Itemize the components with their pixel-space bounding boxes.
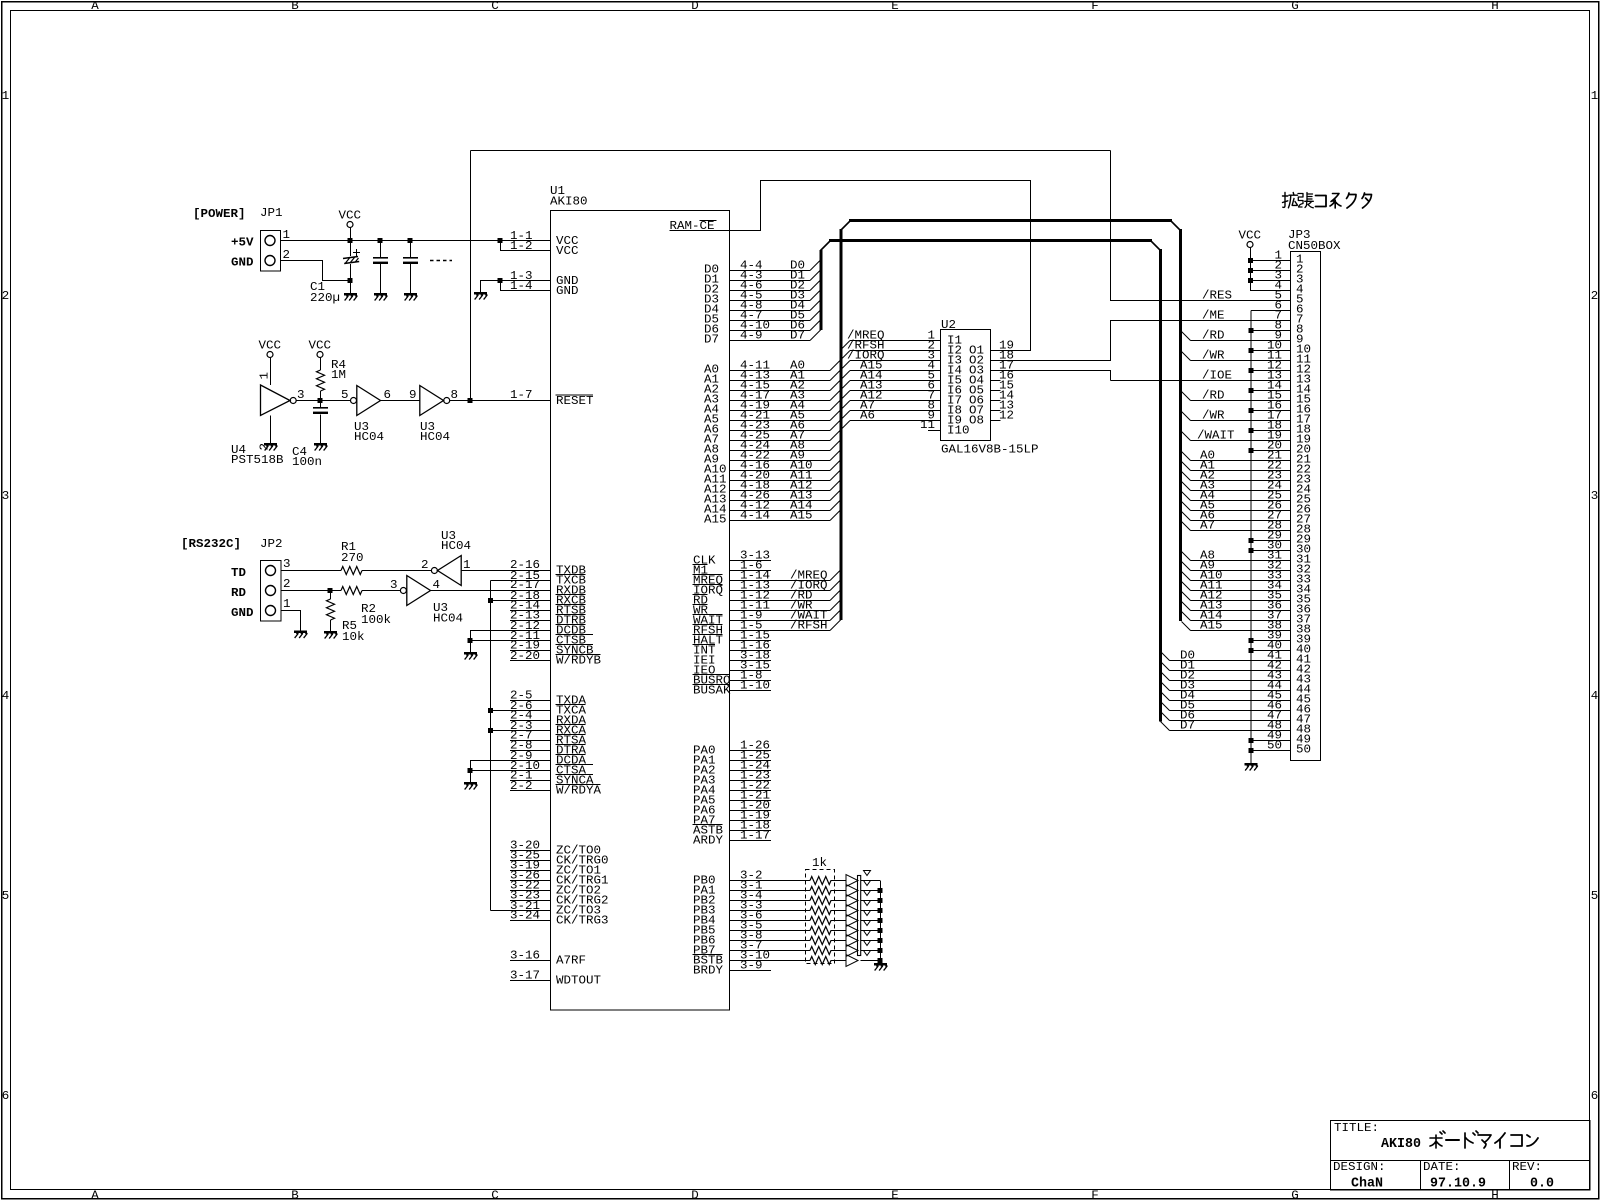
junction GND JP3 pin 14 bbox=[1249, 388, 1254, 393]
address bus vertical at JP3 bbox=[1179, 229, 1182, 621]
JP3 pin 13 net /IOE bbox=[1111, 380, 1291, 382]
RN wire to common 6 bbox=[861, 930, 881, 932]
U1 pin 1-26 PA0 bbox=[730, 750, 771, 752]
junction +5V at C3 bbox=[408, 238, 413, 243]
svg-text:A15: A15 bbox=[704, 513, 727, 527]
RN wire to common 2 bbox=[861, 890, 881, 892]
title block divider vertical 2 bbox=[1509, 1161, 1511, 1191]
power flag VCC at U4 bbox=[259, 339, 282, 358]
wire U2 pin19 O1 to RAM-CE riser bbox=[991, 350, 1031, 352]
junction GND JP3 pin 40 bbox=[1249, 648, 1254, 653]
capacitor C2 bbox=[373, 257, 388, 264]
JP3 pin 2 bbox=[1250, 270, 1291, 272]
JP3 pin 15 net /RD bbox=[1182, 392, 1191, 401]
ground below C4 bbox=[314, 443, 328, 451]
title text board-microcomputer (Japanese) bbox=[1430, 1131, 1538, 1148]
svg-text:A15: A15 bbox=[790, 509, 813, 523]
svg-text:H: H bbox=[1491, 0, 1499, 13]
power flag VCC at JP3 bbox=[1239, 229, 1262, 248]
power flag VCC at C1 bbox=[339, 209, 362, 228]
RN arrow symbol 8 bbox=[846, 945, 858, 957]
svg-text:8: 8 bbox=[451, 388, 459, 402]
U1 pin 4-3 D1 bbox=[730, 280, 810, 282]
svg-text:6: 6 bbox=[2, 1089, 10, 1103]
ground below JP3 bbox=[1245, 763, 1259, 771]
U1 pin 2-5 TXDA bbox=[510, 700, 550, 702]
JP3 pin 43 net D2 bbox=[1161, 672, 1170, 681]
wire R2 to U3d bubble bbox=[362, 590, 400, 592]
U1 pin 2-19 SYNCB bbox=[510, 650, 550, 652]
wire GND into U1 pin 1-3 bbox=[480, 280, 550, 282]
svg-text:3-24: 3-24 bbox=[510, 909, 540, 923]
wire /RES riser corner bbox=[1110, 151, 1112, 301]
U1 pin 4-20 A11 bbox=[730, 480, 830, 482]
svg-text:100k: 100k bbox=[361, 613, 391, 627]
junction GND net at C1 bbox=[348, 278, 353, 283]
RN resistor element 6 bbox=[810, 927, 831, 935]
svg-text:TITLE:: TITLE: bbox=[1334, 1121, 1379, 1135]
RN resistor element 7 bbox=[810, 937, 831, 945]
svg-text:D7: D7 bbox=[1180, 719, 1195, 733]
address bus bend top left bbox=[841, 221, 851, 231]
U1 pin 4-9 D7 bbox=[730, 340, 810, 342]
RN wire to common 7 bbox=[861, 940, 881, 942]
JP3 pin 9 net /RD bbox=[1182, 332, 1191, 341]
U2 pin 4 I4 net A15 bbox=[842, 371, 850, 379]
svg-text:9: 9 bbox=[409, 388, 417, 402]
U2 pin 12 O8 bbox=[991, 420, 1001, 422]
svg-text:97.10.9: 97.10.9 bbox=[1430, 1176, 1486, 1192]
inverter U3d input bubble bbox=[400, 588, 406, 594]
junction GND JP3 pin 16 bbox=[1249, 408, 1254, 413]
junction GND at U1 pin 1-3 bbox=[498, 278, 503, 283]
JP3 pin 12 bbox=[1251, 370, 1291, 372]
U1 pin 1-13 IORQ bbox=[730, 590, 830, 592]
svg-text:B: B bbox=[291, 0, 299, 13]
RN resistor element 9 bbox=[810, 957, 831, 965]
svg-text:F: F bbox=[1091, 1189, 1099, 1200]
RN common bar bbox=[858, 876, 861, 956]
U1 pin 1-10 BUSAK bbox=[730, 690, 771, 692]
wire VCC to U4 pin1 bbox=[270, 358, 272, 386]
svg-text:VCC: VCC bbox=[309, 339, 332, 353]
JP3 pin 34 net A11 bbox=[1182, 582, 1191, 591]
svg-text:3: 3 bbox=[283, 557, 291, 571]
svg-text:HC04: HC04 bbox=[354, 430, 384, 444]
RN wire to common 9 bbox=[861, 960, 881, 962]
address bus horizontal run bbox=[849, 219, 1172, 222]
svg-text:19: 19 bbox=[1296, 433, 1311, 447]
RN junction 2 bbox=[878, 888, 883, 893]
svg-text:11: 11 bbox=[920, 418, 935, 432]
svg-text:1-7: 1-7 bbox=[510, 388, 533, 402]
svg-text:/RD: /RD bbox=[1202, 329, 1225, 343]
connector JP1 body bbox=[261, 231, 281, 272]
junction +5V at C1 bbox=[348, 238, 353, 243]
svg-text:3-9: 3-9 bbox=[740, 959, 763, 973]
wire GND stub down bbox=[480, 281, 482, 293]
svg-text:WDTOUT: WDTOUT bbox=[556, 974, 601, 988]
U1 pin 4-19 A4 bbox=[730, 410, 830, 412]
svg-text:GND: GND bbox=[231, 256, 254, 270]
U1 pin 3-13 CLK bbox=[730, 560, 771, 562]
U1 pin 1-5 RFSH bbox=[730, 630, 830, 632]
RN arrow symbol 7 bbox=[846, 935, 858, 947]
U1 pin 3-18 IEI bbox=[730, 660, 771, 662]
RN wire to common 1 bbox=[861, 880, 881, 882]
junction +5V at C2 bbox=[378, 238, 383, 243]
wire 1-1 VCC into U1 bbox=[500, 240, 550, 242]
svg-text:3: 3 bbox=[390, 578, 398, 592]
wire C3 bottom bbox=[410, 264, 412, 293]
wire U3c input from U1 TXDB bbox=[461, 570, 550, 572]
capacitor C1 wire bottom bbox=[350, 264, 352, 281]
RN resistor element 8 bbox=[810, 947, 831, 955]
U2 pin 5 I5 net A14 bbox=[842, 381, 850, 389]
JP3 pin 35 net A12 bbox=[1182, 592, 1191, 601]
svg-text:RESET: RESET bbox=[556, 394, 594, 408]
inverter U3c output bubble bbox=[431, 568, 437, 574]
wire U2 pin17 O3 to /IOE bbox=[991, 371, 1111, 381]
U2 pin 6 I6 net A13 bbox=[842, 391, 850, 399]
title block divider vertical 1 bbox=[1420, 1161, 1422, 1191]
ground below JP2 bbox=[294, 631, 308, 639]
U1 pin 1-6 M1 bbox=[730, 570, 771, 572]
U1 pin 3-23 CK/TRG2 bbox=[510, 900, 550, 902]
wire RD to R2 bbox=[281, 590, 341, 592]
JP3 pin 11 net /WR bbox=[1182, 352, 1191, 361]
RN resistor element 3 bbox=[810, 897, 831, 905]
U1 pin 4-8 D4 bbox=[730, 310, 810, 312]
capacitor C1 wire top bbox=[350, 241, 352, 257]
U1 pin 4-18 A12 bbox=[730, 490, 830, 492]
connector JP3 body bbox=[1291, 252, 1321, 761]
junction GND JP3 pin 39 bbox=[1249, 638, 1254, 643]
title block outline bbox=[1331, 1121, 1591, 1191]
U1 pin 2-15 TXCB bbox=[491, 580, 551, 582]
wire reset riser vertical bbox=[470, 151, 472, 401]
IC U2 body bbox=[941, 330, 991, 441]
wire JP2 GND pin to ground bbox=[281, 611, 301, 631]
svg-text:4: 4 bbox=[2, 689, 10, 703]
svg-text:AKI80: AKI80 bbox=[550, 195, 588, 209]
data bus D vertical at U1 bbox=[820, 250, 823, 330]
U1 pin 4-6 D2 bbox=[730, 290, 810, 292]
svg-text:O8: O8 bbox=[969, 414, 984, 428]
junction GND JP3 pin 20 bbox=[1249, 448, 1254, 453]
wire U3a out to U3b in bbox=[381, 400, 420, 402]
svg-text:/RD: /RD bbox=[1202, 389, 1225, 403]
RN junction 6 bbox=[878, 928, 883, 933]
U1 pin 4-7 D5 bbox=[730, 320, 810, 322]
U1 pin 3-9 BRDY bbox=[730, 970, 771, 972]
svg-text:A7RF: A7RF bbox=[556, 954, 586, 968]
svg-text:3-17: 3-17 bbox=[510, 969, 540, 983]
junction GND JP3 pin 29 bbox=[1249, 538, 1254, 543]
JP3 pin 3 bbox=[1250, 280, 1291, 282]
svg-text:/WR: /WR bbox=[1202, 409, 1225, 423]
U1 pin 1-18 ASTB bbox=[730, 830, 771, 832]
JP3 pin 50 bbox=[1251, 750, 1291, 752]
address bus vertical at U1 bbox=[840, 229, 843, 620]
ground below U4 bbox=[264, 443, 278, 451]
junction VCC JP3 pin 1 bbox=[1248, 258, 1253, 263]
U1 pin 1-17 ARDY bbox=[730, 840, 771, 842]
svg-text:3: 3 bbox=[1591, 489, 1599, 503]
U1 pin 4-21 A5 bbox=[730, 420, 830, 422]
JP3 pin 36 net A13 bbox=[1182, 602, 1191, 611]
svg-text:/IOE: /IOE bbox=[1202, 369, 1232, 383]
U1 pin 4-5 D3 bbox=[730, 300, 810, 302]
svg-text:GAL16V8B-15LP: GAL16V8B-15LP bbox=[941, 443, 1039, 457]
svg-text:2: 2 bbox=[283, 577, 291, 591]
wire U3b output to U1 RESET bbox=[450, 400, 550, 402]
svg-text:1: 1 bbox=[2, 89, 10, 103]
U1 pin 1-14 MREQ bbox=[730, 580, 830, 582]
U1 pin 3-2 PB0 bbox=[730, 880, 810, 882]
JP2 pin 1 circle bbox=[266, 606, 276, 616]
svg-text:A6: A6 bbox=[860, 409, 875, 423]
svg-text:VCC: VCC bbox=[1239, 229, 1262, 243]
U1 pin 4-22 A9 bbox=[730, 460, 830, 462]
wire VCC flag stem bbox=[350, 228, 352, 241]
ground below C3 bbox=[404, 293, 418, 301]
svg-text:A: A bbox=[91, 1189, 99, 1200]
resistor R5 bbox=[330, 591, 332, 600]
RN wire to common 5 bbox=[861, 920, 881, 922]
U1 pin 1-21 PA5 bbox=[730, 800, 771, 802]
wire JP1 pin2 to C1 bottom bbox=[281, 261, 351, 281]
U1 pin 2-14 RTSB bbox=[510, 610, 550, 612]
svg-text:1: 1 bbox=[283, 228, 291, 242]
svg-text:A7: A7 bbox=[1200, 519, 1215, 533]
svg-text:3-16: 3-16 bbox=[510, 949, 540, 963]
wire U4 pin2 to ground bbox=[270, 416, 272, 444]
wire C4 to ground bbox=[320, 415, 322, 444]
svg-text:TD: TD bbox=[231, 566, 246, 580]
wire U4 output to node bbox=[296, 400, 350, 402]
RN junction 8 bbox=[878, 948, 883, 953]
U1 pin 4-17 A3 bbox=[730, 400, 830, 402]
svg-text:1: 1 bbox=[283, 597, 291, 611]
JP3 pin 21 net A0 bbox=[1182, 452, 1191, 461]
RN arrow symbol 6 bbox=[846, 925, 858, 937]
JP3 pin 41 net D0 bbox=[1161, 652, 1170, 661]
svg-text:A: A bbox=[91, 0, 99, 13]
RN common wire vertical bbox=[880, 881, 882, 964]
U1 pin 3-21 ZC/TO3 bbox=[491, 910, 551, 912]
U2 pin 3 I3 net /IORQ bbox=[842, 361, 850, 369]
reset IC U4 triangle bbox=[261, 385, 291, 416]
svg-text:GND: GND bbox=[556, 284, 579, 298]
svg-text:4-9: 4-9 bbox=[740, 329, 763, 343]
U2 pin 11 I10 bbox=[928, 430, 941, 432]
wire DCDA CTSA to ground bbox=[470, 761, 472, 783]
U1 pin 3-17 WDTOUT bbox=[510, 980, 550, 982]
U1 pin 2-20 W/RDYB bbox=[510, 660, 550, 662]
U1 pin 4-16 A10 bbox=[730, 470, 830, 472]
svg-text:13: 13 bbox=[1267, 369, 1282, 383]
U1 pin 2-11 CTSB bbox=[470, 640, 550, 642]
U2 pin 2 I2 net /RFSH bbox=[842, 351, 850, 359]
svg-text:5: 5 bbox=[341, 388, 349, 402]
svg-text:C: C bbox=[491, 0, 499, 13]
svg-text:AKI80: AKI80 bbox=[1381, 1136, 1421, 1152]
svg-text:JP1: JP1 bbox=[260, 206, 283, 220]
svg-text:50: 50 bbox=[1296, 743, 1311, 757]
U1 pin 1-20 PA6 bbox=[730, 810, 771, 812]
svg-text:1k: 1k bbox=[812, 856, 827, 870]
wire R5 to ground bbox=[330, 620, 332, 631]
junction reset net riser bbox=[468, 398, 473, 403]
JP3 pin 46 net D5 bbox=[1161, 702, 1170, 711]
resistor R4 bbox=[317, 370, 325, 391]
svg-text:1-10: 1-10 bbox=[740, 679, 770, 693]
JP3 pin 45 net D4 bbox=[1161, 692, 1170, 701]
ground at CTSB DCDB bbox=[464, 652, 478, 660]
RN junction 4 bbox=[878, 908, 883, 913]
wire TD to R1 bbox=[281, 570, 341, 572]
svg-text:2: 2 bbox=[1591, 289, 1599, 303]
U1 pin 3-26 CK/TRG1 bbox=[510, 880, 550, 882]
JP3 pin 25 net A4 bbox=[1182, 492, 1191, 501]
svg-text:270: 270 bbox=[341, 551, 364, 565]
ground below R5 bbox=[324, 631, 338, 639]
svg-text:VCC: VCC bbox=[339, 209, 362, 223]
U1 pin 1-12 RD bbox=[730, 600, 830, 602]
U1 pin 2-9 DCDA bbox=[470, 760, 550, 762]
svg-text:JP2: JP2 bbox=[260, 537, 283, 551]
RN junction 5 bbox=[878, 918, 883, 923]
JP3 pin 49 bbox=[1251, 740, 1291, 742]
junction RD at R5 bbox=[328, 588, 333, 593]
svg-text:BUSAK: BUSAK bbox=[693, 684, 731, 698]
svg-text:9: 9 bbox=[1296, 333, 1304, 347]
title block divider horizontal bbox=[1331, 1160, 1590, 1162]
svg-text:4: 4 bbox=[1591, 689, 1599, 703]
U1 pin 3-10 BSTB bbox=[730, 960, 810, 962]
U1 pin 1-16 INT bbox=[730, 650, 771, 652]
RN junction 9 bbox=[878, 958, 883, 963]
svg-text:W/RDYA: W/RDYA bbox=[556, 784, 602, 798]
junction GND JP3 pin 50 bbox=[1249, 748, 1254, 753]
JP3 pin 10 bbox=[1251, 350, 1291, 352]
svg-text:100n: 100n bbox=[292, 455, 322, 469]
U1 pin 2-12 DCDB bbox=[470, 630, 550, 632]
U1 pin 1-22 PA4 bbox=[730, 790, 771, 792]
svg-text:2: 2 bbox=[283, 248, 291, 262]
RN resistor element 5 bbox=[810, 917, 831, 925]
svg-text:1: 1 bbox=[463, 558, 471, 572]
U1 pin 3-16 A7RF bbox=[510, 960, 550, 962]
svg-text:6: 6 bbox=[1591, 1089, 1599, 1103]
svg-text:+5V: +5V bbox=[231, 236, 254, 250]
RN resistor element 4 bbox=[810, 907, 831, 915]
RN arrow symbol 9 bbox=[846, 955, 858, 967]
JP2 pin 3 circle bbox=[266, 566, 276, 576]
svg-text:1-17: 1-17 bbox=[740, 829, 770, 843]
address bus bend right bbox=[1171, 221, 1181, 231]
JP3 pin 47 net D6 bbox=[1161, 712, 1170, 721]
JP1 pin 2 circle bbox=[265, 256, 275, 266]
U1 pin 4-23 A6 bbox=[730, 430, 830, 432]
JP1 pin 1 circle bbox=[265, 236, 275, 246]
svg-text:1-2: 1-2 bbox=[510, 239, 533, 253]
JP3 pin 22 net A1 bbox=[1182, 462, 1191, 471]
U1 pin 4-13 A1 bbox=[730, 380, 830, 382]
svg-text:G: G bbox=[1291, 0, 1299, 13]
svg-text:VCC: VCC bbox=[259, 339, 282, 353]
wire R4 to node bbox=[320, 391, 322, 401]
JP3 pin 31 net A8 bbox=[1182, 552, 1191, 561]
svg-text:11: 11 bbox=[1267, 349, 1282, 363]
svg-text:2: 2 bbox=[421, 558, 429, 572]
junction GND JP3 pin 49 bbox=[1249, 738, 1254, 743]
svg-text:1M: 1M bbox=[331, 368, 346, 382]
junction VCC JP3 pin 2 bbox=[1248, 268, 1253, 273]
svg-text:15: 15 bbox=[1296, 393, 1311, 407]
wire VCC to R4 bbox=[320, 358, 322, 371]
RN junction 7 bbox=[878, 938, 883, 943]
U1 pin 3-15 IEO bbox=[730, 670, 771, 672]
JP3 pin 32 net A9 bbox=[1182, 562, 1191, 571]
U1 pin 2-10 CTSA bbox=[470, 770, 550, 772]
RN arrow symbol 1 bbox=[846, 875, 858, 887]
svg-text:REV:: REV: bbox=[1512, 1160, 1542, 1174]
junction VCC JP3 pin 3 bbox=[1248, 278, 1253, 283]
svg-text:D7: D7 bbox=[790, 329, 805, 343]
svg-text:2-15: 2-15 bbox=[510, 569, 540, 583]
ellipsis dashes more caps bbox=[430, 260, 452, 262]
inverter U3a input bubble bbox=[351, 398, 357, 404]
svg-text:E: E bbox=[891, 0, 899, 13]
JP3 pin 16 bbox=[1251, 410, 1291, 412]
U3b output bubble bbox=[444, 398, 450, 404]
svg-text:17: 17 bbox=[1296, 413, 1311, 427]
svg-text:6: 6 bbox=[384, 388, 392, 402]
svg-text:ARDY: ARDY bbox=[693, 834, 723, 848]
svg-text:3: 3 bbox=[297, 388, 305, 402]
resistor network RN dashed outline bbox=[806, 870, 835, 964]
JP3 pin 23 net A2 bbox=[1182, 472, 1191, 481]
JP3 pin 28 net A7 bbox=[1182, 522, 1191, 531]
RN resistor element 1 bbox=[810, 877, 831, 885]
JP3 pin 29 bbox=[1251, 540, 1291, 542]
capacitor C1 plus sign bbox=[353, 249, 360, 256]
svg-text:10k: 10k bbox=[342, 630, 365, 644]
wire VCC to JP3 pins 1-4 bbox=[1250, 248, 1252, 291]
JP3 pin 1 bbox=[1250, 260, 1291, 262]
U1 pin RAM-CE overbar bbox=[700, 220, 717, 222]
U1 pin 2-1 SYNCA bbox=[510, 780, 550, 782]
U1 pin 2-3 RXCA bbox=[491, 730, 551, 732]
svg-text:DESIGN:: DESIGN: bbox=[1333, 1160, 1386, 1174]
data bus D bend right bbox=[1151, 241, 1161, 251]
ground below C1 bbox=[344, 293, 358, 301]
JP3 pin 33 net A10 bbox=[1182, 572, 1191, 581]
svg-text:17: 17 bbox=[1267, 409, 1282, 423]
wire TXCB RXCB join vertical bbox=[490, 581, 492, 911]
ground below C2 bbox=[374, 293, 388, 301]
U1 pin 2-2 W/RDYA bbox=[510, 790, 550, 792]
JP3 pin 40 bbox=[1251, 650, 1291, 652]
connector JP2 body bbox=[261, 561, 282, 622]
JP3 pin 14 bbox=[1251, 390, 1291, 392]
U1 pin 3-4 PB2 bbox=[730, 900, 810, 902]
svg-text:W/RDYB: W/RDYB bbox=[556, 654, 601, 668]
svg-text:U2: U2 bbox=[941, 318, 956, 332]
svg-text:[RS232C]: [RS232C] bbox=[181, 537, 241, 551]
